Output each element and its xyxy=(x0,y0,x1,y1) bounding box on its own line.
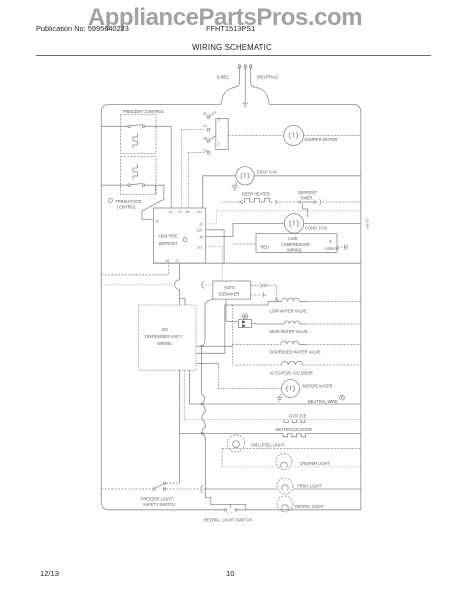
svg-text:DEFROST: DEFROST xyxy=(298,190,318,195)
svg-text:3B: 3B xyxy=(203,137,208,141)
svg-text:GREEN: GREEN xyxy=(325,246,339,251)
svg-text:J7: J7 xyxy=(175,259,179,263)
svg-text:3C: 3C xyxy=(203,112,208,116)
svg-text:J4: J4 xyxy=(169,210,173,214)
svg-text:1C: 1C xyxy=(203,124,208,128)
svg-text:REFRIG. LIGHT SWITCH: REFRIG. LIGHT SWITCH xyxy=(204,518,252,523)
svg-text:TIMER.: TIMER. xyxy=(300,196,313,201)
svg-text:COND. FAN: COND. FAN xyxy=(305,226,327,231)
svg-text:J11: J11 xyxy=(197,210,203,214)
svg-text:LT-GN: LT-GN xyxy=(365,219,369,229)
svg-text:J9: J9 xyxy=(155,219,159,223)
svg-text:MAIN WATER VALVE: MAIN WATER VALVE xyxy=(270,329,308,334)
svg-text:J5: J5 xyxy=(166,259,170,263)
svg-text:FREEZER CONTROL: FREEZER CONTROL xyxy=(123,109,165,114)
svg-text:DAMPER MOTOR: DAMPER MOTOR xyxy=(305,137,338,142)
svg-text:MOTOR,AUGER: MOTOR,AUGER xyxy=(303,384,333,389)
svg-text:MID LEVEL LIGHT: MID LEVEL LIGHT xyxy=(251,443,285,448)
svg-text:J8: J8 xyxy=(186,210,190,214)
svg-text:DEFR HEATER: DEFR HEATER xyxy=(242,192,270,197)
svg-text:1C: 1C xyxy=(203,149,208,153)
svg-text:J3: J3 xyxy=(178,210,182,214)
svg-text:WIRING: WIRING xyxy=(157,341,172,346)
svg-text:C: C xyxy=(218,119,221,123)
svg-text:3: 3 xyxy=(329,239,332,244)
svg-text:LOW WATER VALVE: LOW WATER VALVE xyxy=(270,309,308,314)
svg-text:FREEZER LIGHT /: FREEZER LIGHT / xyxy=(141,497,175,502)
svg-text:CSIR: CSIR xyxy=(288,236,298,241)
svg-text:DISPENSED WATER VALVE: DISPENSED WATER VALVE xyxy=(270,349,322,354)
svg-text:ADAPTIVE: ADAPTIVE xyxy=(158,234,178,239)
svg-text:FRESH FOOD: FRESH FOOD xyxy=(116,199,142,204)
svg-text:J13: J13 xyxy=(197,246,203,250)
svg-text:ACTUATOR, ICE DOOR: ACTUATOR, ICE DOOR xyxy=(270,371,313,376)
svg-text:CRISPER LIGHT: CRISPER LIGHT xyxy=(299,461,330,466)
svg-text:R: R xyxy=(341,396,344,400)
svg-text:J2: J2 xyxy=(199,222,203,226)
svg-text:(NEUTRAL): (NEUTRAL) xyxy=(257,75,279,80)
svg-text:CONTROL: CONTROL xyxy=(117,205,137,210)
svg-text:ICE: ICE xyxy=(162,327,169,332)
svg-text:HEATER,ICE DOOR: HEATER,ICE DOOR xyxy=(275,427,312,432)
svg-text:EVAP. FAN: EVAP. FAN xyxy=(257,170,277,175)
svg-text:COMPRESSOR: COMPRESSOR xyxy=(281,242,310,247)
svg-text:DEFROST: DEFROST xyxy=(159,241,179,246)
svg-text:J6: J6 xyxy=(199,235,203,239)
svg-text:SAFETY SWITCH: SAFETY SWITCH xyxy=(143,502,175,507)
svg-text:J10: J10 xyxy=(197,229,203,233)
svg-text:AUTO: AUTO xyxy=(224,285,235,290)
svg-text:FAST ICE: FAST ICE xyxy=(289,413,307,418)
svg-text:NEUTRAL WIRE: NEUTRAL WIRE xyxy=(308,399,338,404)
svg-text:ICEMAKER: ICEMAKER xyxy=(219,292,240,297)
svg-text:REFRIG. LIGHT: REFRIG. LIGHT xyxy=(295,504,324,509)
svg-text:DISPENSER ASS'Y: DISPENSER ASS'Y xyxy=(145,334,182,339)
svg-text:(LINE): (LINE) xyxy=(217,75,229,80)
svg-text:WIRING: WIRING xyxy=(287,248,302,253)
svg-text:FRSH. LIGHT: FRSH. LIGHT xyxy=(297,483,322,488)
svg-text:C: C xyxy=(218,143,221,147)
svg-text:RED: RED xyxy=(261,245,270,250)
